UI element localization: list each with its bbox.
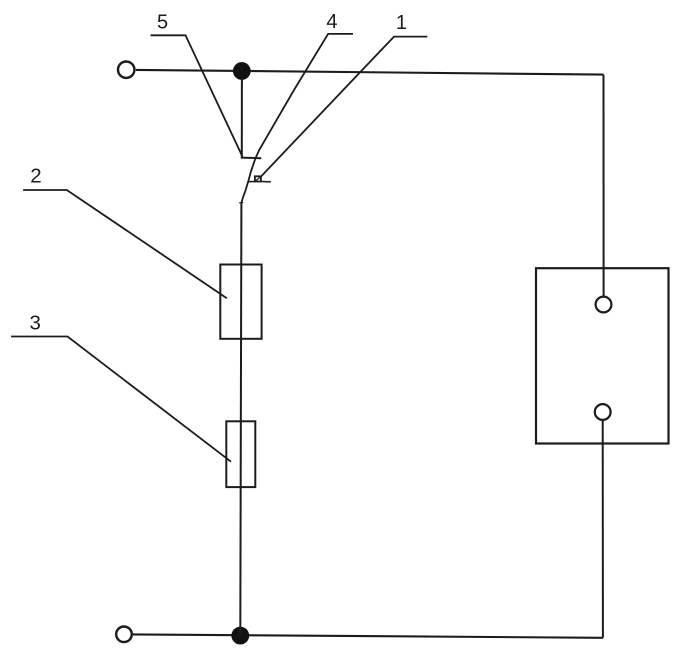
wire right vertical drop [603,75,605,296]
junction tick at arm base [239,201,243,203]
fixed contact foot [241,157,261,160]
label 3 leader line [11,337,231,462]
component box (load) [536,268,669,443]
svg-text:5: 5 [157,12,168,34]
wire from lower terminal down right side [602,421,604,638]
terminal lower in box [595,404,611,420]
svg-text:1: 1 [396,12,407,34]
terminal top-left [118,61,134,77]
terminal upper in box [596,297,612,313]
wire top rail [136,70,604,75]
node junction top [233,62,251,80]
label 4 leader line and switch arm [241,34,353,204]
svg-text:3: 3 [29,312,40,335]
label 5 leader line [151,35,243,156]
wire bottom rail [133,634,603,637]
node junction bottom [231,627,249,645]
wire vertical main left (below switch) [240,204,241,636]
component rectangle 2 (resistor) [220,265,261,339]
svg-text:2: 2 [30,165,41,188]
movable contact block [248,176,270,182]
wire vertical from top junction to fixed contact [241,79,243,158]
terminal bottom-left [116,627,132,643]
svg-text:4: 4 [326,11,337,33]
label 1 leader line [261,37,427,177]
label 2 leader line [23,190,227,298]
component rectangle 3 (resistor) [226,421,255,487]
